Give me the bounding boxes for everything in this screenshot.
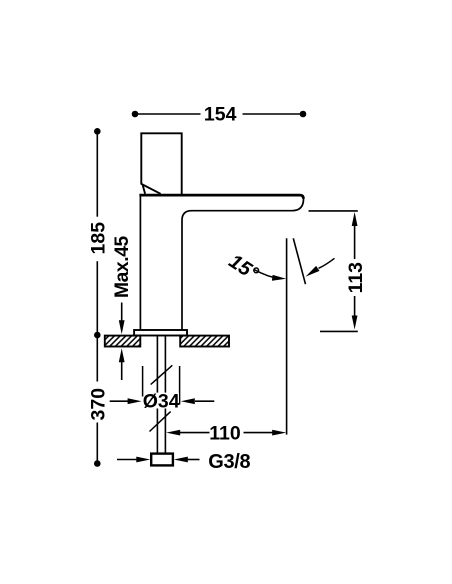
Max.45 down arrow [121,303,123,322]
faucet spout right end and underside [182,198,304,332]
pipe break mark lower [150,412,171,432]
svg-text:154: 154 [204,104,237,126]
diameter 34 extension line right [179,366,181,404]
supply pipe [157,336,165,454]
svg-text:370: 370 [87,388,109,421]
svg-text:Max.45: Max.45 [112,235,133,298]
countertop hatched section left [105,336,141,347]
dimension 113 bottom tick [320,330,358,332]
Max.45 up arrow [121,361,123,380]
faucet base plate [134,330,187,336]
dimension 113 top arrow [352,212,358,226]
diameter 34 left arrow [110,400,129,402]
G3/8 connector square [151,454,173,466]
diameter 34 right arrow [195,400,214,402]
diameter 34 text background [144,393,179,409]
vertical construction line [286,238,288,434]
svg-text:110: 110 [209,422,241,444]
dimension 370 line [96,335,98,464]
countertop hatched section right [180,336,229,347]
dimension 113 top tick [309,210,358,212]
faucet spout top surface [139,195,303,199]
faucet handle lever [141,133,181,194]
15 degree leader arrow to tilted line [319,258,335,268]
15 degree leader arrow to vertical line [254,270,279,279]
svg-text:185: 185 [88,222,110,255]
svg-text:G3/8: G3/8 [208,451,250,473]
svg-text:113: 113 [345,262,367,294]
dimension 110 left arrow [166,430,180,436]
G3/8 right arrow [188,459,200,461]
pipe break mark upper [151,365,173,384]
svg-text:Ø34: Ø34 [143,391,180,413]
diameter 34 extension line left [142,366,144,397]
dimension 154 line [135,113,303,115]
faucet body left edge [139,196,141,331]
dimension 110 right arrow [244,432,273,434]
15 degree tilted line [293,238,305,284]
dimension 113 bottom arrow [354,296,356,317]
G3/8 left arrow [117,459,137,461]
dimension 185 line [96,131,98,335]
